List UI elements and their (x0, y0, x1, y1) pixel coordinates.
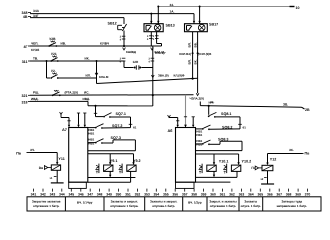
wire branch to x96.5 (59, 77, 97, 79)
rotated pin labels SB17 upper (188, 42, 198, 47)
valve Y9.1 (95, 164, 113, 174)
wire to Y11 (30, 153, 58, 165)
svg-text:SB17: SB17 (209, 22, 218, 26)
junction SQ7 feed (94, 105, 96, 107)
wire vertical x96.5 (96, 60, 98, 84)
svg-text:з2: з2 (260, 177, 263, 181)
svg-text:НВ1: НВ1 (88, 141, 94, 145)
pin labels SQ7.2 (88, 128, 94, 136)
svg-text:(КЗЛ.(9)В: (КЗЛ.(9)В (198, 52, 211, 56)
svg-text:346: 346 (78, 193, 84, 197)
wire A7 to Y9.2 bottom (y182.3) (88, 171, 131, 182)
svg-text:ЗВ.: ЗВ. (283, 103, 288, 107)
svg-text:321: 321 (22, 94, 28, 98)
wire SB17 bottom left pin to row (192, 32, 194, 79)
svg-text:з1: з1 (50, 176, 53, 180)
wire SB17 top pin from grey bus (198, 6, 200, 24)
svg-text:ЗВА.(9): ЗВА.(9) (158, 74, 169, 78)
svg-text:РШ.: РШ. (33, 91, 39, 95)
wire to Y12 (266, 154, 302, 166)
svg-text:КУ/ВЧ: КУ/ВЧ (100, 41, 109, 45)
wire row y105.5 to 2V (200, 106, 304, 109)
svg-text:348: 348 (97, 193, 103, 197)
illuminated pushbutton SB17 (185, 24, 208, 32)
terminal strip numbers 341-370 (31, 189, 311, 197)
svg-text:Y10.2: Y10.2 (242, 159, 252, 163)
lamp 12N link (124, 61, 153, 70)
svg-text:КЛ.(9)Ф: КЛ.(9)Ф (174, 74, 185, 78)
svg-text:У2В: У2В (49, 37, 56, 41)
svg-text:358: 358 (191, 193, 197, 197)
svg-text:Y10.1: Y10.1 (219, 159, 229, 163)
svg-text:ЧЗЛА.2(9): ЧЗЛА.2(9) (190, 96, 204, 100)
junction SQ8 feed (208, 105, 210, 107)
svg-text:ВК.: ВК. (193, 59, 197, 64)
electromagnet Y12 (251, 165, 273, 170)
svg-text:опускание 1 батр.: опускание 1 батр. (33, 204, 60, 208)
svg-text:Захваты и закрыт.: Захваты и закрыт. (111, 200, 138, 204)
wire row KLA (x96.5 to x198.7) (97, 78, 198, 83)
svg-text:368: 368 (286, 193, 292, 197)
svg-text:342: 342 (40, 193, 46, 197)
svg-text:ав.: ав. (210, 100, 215, 104)
svg-text:311: 311 (22, 60, 28, 64)
junction R1 with SB12 wire (123, 45, 125, 47)
node KSh/VD below R1 (123, 48, 126, 50)
svg-text:355: 355 (163, 193, 169, 197)
wire SQ7.3 return (134, 140, 136, 151)
svg-text:344: 344 (59, 193, 65, 197)
svg-text:Закрытие захватов: Закрытие захватов (32, 200, 61, 204)
svg-text:ИК.: ИК. (85, 56, 90, 60)
svg-text:КЛА.М: КЛА.М (99, 75, 109, 79)
svg-text:34А: 34А (33, 9, 40, 13)
svg-text:364: 364 (248, 193, 254, 197)
svg-text:353: 353 (144, 193, 150, 197)
wire row y106 feed SQ7 (88, 105, 153, 107)
svg-text:Y12: Y12 (270, 158, 277, 162)
table cell texts (32, 200, 307, 208)
valve Y9.2 (119, 164, 137, 174)
contact U21 on R2 (50, 52, 58, 62)
pin marks SB12 (120, 36, 126, 42)
svg-text:352: 352 (135, 193, 141, 197)
svg-text:ИС.: ИС. (84, 90, 89, 94)
svg-text:У21: У21 (51, 52, 57, 56)
pin A6 grey x185.5 arrow (184, 117, 187, 128)
svg-text:ИВ.: ИВ. (61, 41, 66, 45)
wire SB13 top pin from grey bus (157, 6, 159, 24)
wire SB17 bottom right pin (196, 32, 199, 96)
node KLA.M below R1 (151, 48, 154, 50)
table frame (27, 197, 321, 211)
svg-text:363: 363 (239, 193, 245, 197)
wire SB13 top pin from bus 34A (150, 13, 152, 24)
svg-text:367: 367 (276, 193, 282, 197)
svg-text:2В: 2В (305, 108, 310, 112)
svg-text:369: 369 (295, 193, 301, 197)
wire A6 to Y10.1 bottom (y177.4) (196, 171, 238, 177)
svg-text:350: 350 (116, 193, 122, 197)
svg-text:ИВД.: ИВД. (31, 97, 39, 101)
relay block A7 (69, 128, 88, 183)
svg-text:365: 365 (257, 193, 263, 197)
svg-text:345: 345 (68, 193, 74, 197)
svg-text:SB13: SB13 (166, 24, 175, 28)
svg-text:Y9.1: Y9.1 (110, 159, 118, 163)
limit switch SQ8.1 (208, 106, 240, 118)
svg-text:ВБ.: ВБ. (193, 42, 197, 47)
svg-text:Dв: Dв (39, 166, 43, 170)
wire SB13 bottom right pin (153, 32, 162, 46)
wire row 321 (y95.3) (30, 94, 194, 97)
svg-text:360: 360 (210, 193, 216, 197)
wire branch parallel contact (46, 60, 51, 78)
svg-text:опускание 1 батра.: опускание 1 батра. (110, 204, 138, 208)
limit switch SQ7.1 (94, 106, 131, 118)
node chevron x152.8 (151, 75, 154, 77)
svg-text:362: 362 (229, 193, 235, 197)
svg-text:347: 347 (87, 193, 93, 197)
svg-text:4В: 4В (23, 15, 28, 19)
svg-text:SQ7.3: SQ7.3 (111, 136, 121, 140)
svg-text:А6: А6 (168, 128, 174, 133)
svg-text:4Г: 4Г (23, 45, 27, 49)
svg-text:НВ1: НВ1 (196, 143, 202, 147)
svg-text:Захваты: Захваты (244, 200, 257, 204)
electromagnet Y11 (39, 165, 61, 170)
junction R3 x152.8 (152, 94, 154, 96)
svg-text:опускание 1 батр.: опускание 1 батр. (210, 204, 237, 208)
wire SQ8.3 return (241, 141, 243, 150)
svg-text:А7: А7 (62, 127, 67, 132)
wire A7 to SQ7.3 return (y150.8) (88, 150, 136, 152)
wire row 4G (y46) (30, 45, 162, 47)
svg-text:SQ7.2: SQ7.2 (112, 124, 122, 128)
svg-text:359: 359 (201, 193, 207, 197)
svg-text:КЛА.М: КЛА.М (155, 50, 165, 54)
valve Y10.2 (223, 164, 241, 173)
svg-text:НВ1: НВ1 (196, 133, 202, 137)
connector below A6 (176, 182, 195, 188)
svg-text:опуск. 1 батр.: опуск. 1 батр. (241, 204, 261, 208)
wire SQ8.1 out drop (238, 117, 246, 130)
svg-text:SQ8.2: SQ8.2 (222, 125, 232, 129)
svg-text:б1: б1 (133, 126, 137, 130)
svg-text:ИЛ.: ИЛ. (86, 73, 91, 77)
wire A7 to Y9.1 bottom (y177.5) (88, 171, 136, 177)
relay block A6 (176, 128, 196, 183)
svg-text:34Г: 34Г (33, 14, 39, 18)
wire grey bus (y6.5) (158, 6, 292, 8)
svg-text:318: 318 (22, 100, 28, 104)
wire bus 34A (y14) (30, 13, 194, 15)
limit switch SQ8.2 (196, 125, 241, 130)
svg-text:ЧЕП.: ЧЕП. (31, 41, 38, 45)
svg-text:SQ7.1: SQ7.1 (116, 112, 126, 116)
svg-text:б1: б1 (243, 126, 247, 130)
mid junction marks on SB17 pins (179, 52, 211, 56)
svg-text:Затворы туда: Затворы туда (282, 200, 303, 204)
wire SB13 bottom left pin (147, 32, 153, 46)
svg-text:ВЧ. 1/1Чру: ВЧ. 1/1Чру (77, 201, 93, 205)
svg-text:КШ/ВД: КШ/ВД (126, 50, 137, 54)
node chevron left of A6 (168, 115, 180, 127)
svg-text:351: 351 (125, 193, 131, 197)
wire bus 34G (y17.7) (30, 17, 124, 19)
svg-text:34.: 34. (170, 3, 174, 7)
contact on R3 (52, 90, 61, 96)
wire stub to row y105.5 (199, 102, 201, 106)
svg-text:ИВД.: ИВД. (83, 97, 91, 101)
svg-text:357: 357 (182, 193, 188, 197)
limit switch SQ7.3 (88, 139, 136, 144)
svg-text:ЗЧ.: ЗЧ. (30, 148, 35, 152)
svg-text:SB12: SB12 (108, 22, 117, 26)
svg-text:НВ1: НВ1 (88, 132, 94, 136)
svg-text:341: 341 (31, 193, 37, 197)
table dividers (65, 197, 262, 211)
limit switch SQ8.3 (196, 140, 243, 145)
node 10 right end of grey bus (290, 6, 295, 8)
svg-text:опускан.1 батр.: опускан.1 батр. (152, 204, 175, 208)
svg-text:1А.: 1А. (170, 9, 175, 13)
rotated pin labels SB17 lower (188, 59, 198, 64)
svg-text:направление 1 батр.: направление 1 батр. (277, 204, 308, 208)
connector below A7 (69, 182, 87, 188)
svg-text:10: 10 (296, 6, 300, 10)
wire SB13 drop (x152.8) (148, 46, 154, 106)
wire grey drop to A6 (184, 95, 186, 128)
pin labels SQ8.2 (196, 129, 202, 137)
svg-text:ВЛ.: ВЛ. (188, 59, 192, 64)
wire SQ7.1 out drop (129, 117, 137, 130)
svg-text:ВЧ. 1/2ур: ВЧ. 1/2ур (188, 201, 202, 205)
svg-text:КУ/45: КУ/45 (31, 48, 39, 52)
svg-text:SQ8.1: SQ8.1 (221, 112, 231, 116)
pin labels SQ8.3 (196, 139, 202, 147)
wire SB17 top pin from bus 34A corner (193, 14, 195, 24)
limit switch SQ7.2 (88, 124, 131, 129)
svg-text:КОЛ.В4(: КОЛ.В4( (179, 52, 190, 56)
wire A6 to Y10 coils top (y154) (196, 154, 240, 165)
pin A7 x78.5 (77, 113, 80, 128)
pin A6 x193.2 (192, 117, 195, 128)
wire Y12 bottom (260, 171, 274, 184)
wire SB12 drop marks (120, 58, 126, 64)
svg-text:ЗС.: ЗС. (289, 148, 294, 152)
junction with SB17 left pin (192, 78, 194, 80)
svg-text:343: 343 (50, 193, 56, 197)
svg-text:(РТА.2(9): (РТА.2(9) (65, 91, 78, 95)
svg-text:Захваты и закрыт.: Захваты и закрыт. (150, 200, 177, 204)
svg-text:У2.: У2. (51, 69, 56, 73)
node KLA.M chevron x96.5 (95, 73, 98, 75)
svg-text:356: 356 (172, 193, 178, 197)
svg-text:Y11: Y11 (58, 157, 64, 161)
contact U2V on R1 (48, 37, 57, 47)
wire A7 to Y9 coils top (y153.8) (88, 154, 135, 165)
svg-text:SQ8.3: SQ8.3 (218, 137, 228, 141)
wire row 311 (y61) (30, 60, 124, 62)
svg-text:ТВ.: ТВ. (33, 56, 38, 60)
svg-text:Пв: Пв (16, 151, 22, 155)
svg-text:ВЛ.: ВЛ. (188, 42, 192, 47)
pin labels SQ7.3 (88, 138, 94, 146)
svg-text:370: 370 (305, 193, 311, 197)
svg-text:Закрыт. и захваты: Закрыт. и захваты (209, 200, 237, 204)
svg-text:366: 366 (267, 193, 273, 197)
svg-text:Y9.2: Y9.2 (133, 159, 141, 163)
contact U2 on branch (50, 69, 58, 79)
svg-text:12Н: 12Н (133, 60, 139, 64)
pushbutton SB12 (118, 18, 127, 46)
wire A6 lower bracket (y182.1) (196, 181, 231, 183)
node chevron left of A7 (60, 112, 71, 127)
svg-text:349: 349 (106, 193, 112, 197)
wire A6 to SQ8.3 return (y150.6) (196, 150, 243, 152)
svg-text:Пв: Пв (305, 152, 311, 156)
valve Y10.1 (199, 164, 217, 173)
svg-text:361: 361 (220, 193, 226, 197)
wire row 318 (y101.4) (30, 101, 88, 105)
wire Y11 bottom (50, 170, 64, 183)
illuminated pushbutton SB13 (144, 24, 163, 32)
svg-text:354: 354 (153, 193, 159, 197)
pin A7 x84.8 (83, 113, 86, 128)
